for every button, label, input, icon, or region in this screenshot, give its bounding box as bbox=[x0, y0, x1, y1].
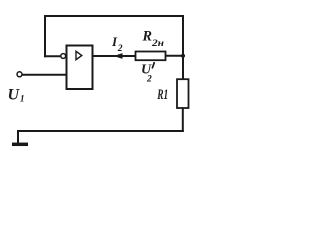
op-amp inverting input bubble bbox=[61, 54, 66, 59]
svg-text:U: U bbox=[8, 87, 21, 104]
resistor R2n box bbox=[136, 52, 166, 61]
wire junction down to R1 top bbox=[182, 56, 184, 79]
resistor R1 box bbox=[177, 79, 189, 108]
wire op-amp output to R2n bbox=[93, 55, 136, 57]
wire into inverting input bubble bbox=[45, 55, 60, 57]
svg-text:R1: R1 bbox=[157, 87, 169, 103]
svg-text:1: 1 bbox=[20, 94, 25, 104]
svg-text:2: 2 bbox=[146, 75, 152, 85]
wire input U1 terminal to op-amp bbox=[22, 74, 67, 76]
ground symbol bbox=[12, 131, 28, 144]
op-amp triangle symbol bbox=[76, 51, 82, 59]
wire R2n right side to junction bbox=[166, 55, 184, 57]
current arrow I2 (pointing left) bbox=[114, 53, 123, 59]
wire R1 bottom down bbox=[182, 108, 184, 131]
svg-text:2н: 2н bbox=[151, 39, 164, 49]
wire top feedback horizontal bbox=[45, 15, 183, 17]
svg-text:2: 2 bbox=[117, 44, 123, 54]
wire right vertical from top to R2n junction bbox=[182, 16, 184, 56]
svg-text:R: R bbox=[142, 29, 152, 45]
input terminal circle bbox=[17, 72, 22, 77]
wire bottom horizontal to ground bbox=[18, 130, 183, 132]
op-amp U1 box bbox=[67, 46, 93, 90]
junction node dot bbox=[181, 54, 185, 58]
wire feedback left vertical bbox=[44, 16, 46, 56]
